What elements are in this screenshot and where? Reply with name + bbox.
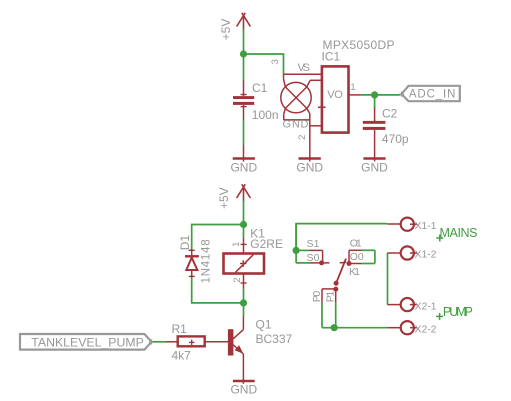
svg-text:Q1: Q1 [256,317,272,331]
relay contact O (K1) [347,250,375,266]
svg-text:+5V: +5V [219,19,233,41]
svg-text:TANKLEVEL_PUMP: TANKLEVEL_PUMP [31,335,144,349]
connector pin X1-1 [387,218,436,232]
svg-text:P1: P1 [325,291,337,303]
svg-text:C1: C1 [252,81,268,95]
svg-text:470p: 470p [382,132,409,146]
wire node B down to C2 [374,95,376,108]
wire node A to IC1 pin 3 [244,54,284,74]
contact pivot dot 1 [334,281,339,286]
capacitor C1 [233,81,254,120]
wire K1 coil pin 2 to node D [243,289,245,303]
svg-text:O0: O0 [350,251,364,263]
relay contact S (K1) [296,224,329,266]
svg-text:O1: O1 [350,237,362,249]
svg-text:+5V: +5V [217,187,231,209]
wire flag to R1 [153,341,167,343]
node A junction [240,50,247,57]
svg-text:GND: GND [296,161,323,175]
net flag ADC_IN [399,86,460,101]
contact pivot dot 2 [333,287,338,292]
svg-text:3: 3 [270,59,281,64]
wire X1-2 to X2-1 [387,253,389,305]
svg-text:P0: P0 [311,291,323,303]
diode D1 1N4148 [185,249,199,278]
node C junction [240,221,247,228]
svg-text:C2: C2 [382,107,398,121]
svg-text:4k7: 4k7 [172,348,192,362]
svg-text:X2-1: X2-1 [415,300,437,312]
svg-text:100n: 100n [252,108,279,122]
ground under C1 [230,145,257,175]
connector pin X1-2 [387,246,436,260]
svg-text:2: 2 [232,277,243,282]
wire node D to Q1 collector [243,303,245,317]
svg-text:S0: S0 [307,252,320,264]
svg-text:PUMP: PUMP [443,305,473,319]
wire node E to X1-1 [296,224,387,251]
connector pin X2-2 [387,321,436,335]
svg-text:K1: K1 [349,266,360,278]
svg-text:ADC_IN: ADC_IN [409,89,456,101]
pressure sensor IC1 MPX5050DP [281,66,349,132]
svg-text:GND: GND [230,161,257,175]
svg-text:X1-1: X1-1 [415,220,437,232]
relay contact P (K1) [322,289,336,328]
svg-text:GND: GND [361,161,388,175]
wire +5V to node C [243,200,245,225]
relay contact arm K1 [336,259,346,284]
svg-text:IC1: IC1 [322,50,341,64]
svg-text:D1: D1 [178,235,192,251]
svg-text:1N4148: 1N4148 [201,239,213,283]
svg-text:MAINS: MAINS [440,226,478,240]
svg-text:1: 1 [350,82,355,93]
resistor R1 [167,336,229,346]
svg-text:VS: VS [298,62,311,74]
wire node C to D1 [192,225,244,250]
node E junction [293,247,300,254]
svg-text:BC337: BC337 [256,332,293,346]
svg-text:VO: VO [327,89,343,101]
wire IC1 pin 1 to ADC_IN [361,94,400,96]
svg-text:X2-2: X2-2 [415,323,437,335]
net label MAINS [436,226,477,242]
wire C1 to ground [243,120,245,146]
connector pin X2-1 [387,298,436,312]
pin line IC1 pin 1 [349,94,362,96]
svg-text:1: 1 [231,242,242,247]
svg-text:GND: GND [283,119,309,131]
pin line IC1 pin 2 to ground [309,114,311,162]
wire node F to X2-2 [334,327,387,329]
supply +5V (bottom) [237,184,251,201]
node B junction [371,91,378,98]
svg-text:GND: GND [230,382,257,396]
ground under C2 [361,159,388,175]
capacitor C2 [363,108,386,162]
svg-text:G2RE: G2RE [250,237,283,251]
node F junction [331,324,338,331]
supply +5V (top) [237,13,251,30]
svg-text:R1: R1 [172,322,188,336]
svg-text:2: 2 [297,135,308,140]
wire node A to C1 [243,54,245,81]
wire node C to K1 coil pin 1 [243,225,245,238]
ground under IC1 pin 2 [296,159,323,175]
wire D1 to node D [192,278,244,303]
svg-text:S1: S1 [307,238,320,250]
node D junction [240,299,247,306]
ground under Q1 [230,381,257,396]
transistor Q1 BC337 [228,316,244,383]
net flag TANKLEVEL_PUMP [20,334,154,350]
wire +5V to node A [243,29,245,55]
relay coil K1 G2RE [224,238,265,289]
svg-text:X1-2: X1-2 [415,249,437,261]
net label PUMP [436,305,473,320]
